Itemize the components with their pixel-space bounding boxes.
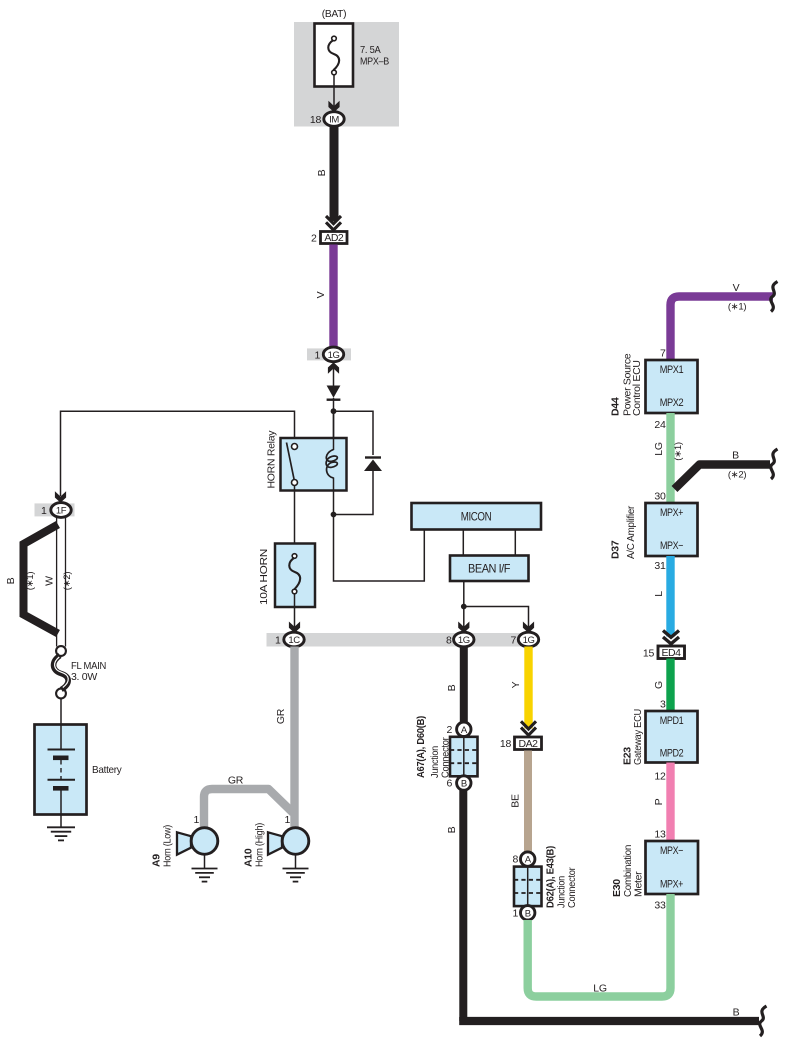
svg-text:AD2: AD2 (324, 232, 344, 244)
connector IM (324, 112, 344, 127)
wire coil to MICON (334, 515, 425, 582)
svg-text:(∗1): (∗1) (25, 572, 36, 591)
wire L D37 to ED4 (666, 556, 674, 637)
wire GR main 1C to horn A10 (290, 647, 298, 829)
wire LG loop D62 to E30 (528, 894, 671, 997)
svg-text:W: W (44, 576, 56, 586)
svg-text:MICON: MICON (461, 510, 492, 524)
wire B bottom to right edge (463, 1017, 759, 1021)
battery (35, 725, 87, 815)
svg-text:V: V (315, 291, 327, 298)
connector 1F (51, 503, 71, 518)
svg-text:D44: D44 (610, 397, 622, 416)
svg-text:10A HORN: 10A HORN (258, 549, 270, 605)
svg-text:A67(A), D60(B): A67(A), D60(B) (415, 716, 427, 778)
wire top junction to diode D2 (334, 411, 374, 455)
wire Y 7-1G to DA2 (524, 647, 532, 729)
relay HORN Relay box (281, 438, 347, 491)
fuse block background (Main Body ECU shading) (294, 22, 399, 127)
connector 1F band (35, 503, 75, 516)
wire FL MAIN to battery (60, 699, 62, 725)
svg-text:Horn (Low): Horn (Low) (162, 825, 174, 867)
svg-text:D37: D37 (610, 540, 622, 559)
wire BEAN to junction node (463, 581, 465, 627)
ground below horn A9 (204, 854, 206, 868)
junction connector A terminal (A67) (457, 722, 471, 736)
node junction bottom (331, 512, 337, 518)
arrow into 1F (55, 491, 66, 503)
svg-text:B: B (732, 450, 739, 462)
wire relay feed horizontal (61, 411, 295, 496)
fusible link FL MAIN 3.0W (56, 646, 66, 656)
diode D2 (pointing up) (365, 456, 381, 458)
connector 1C (284, 632, 304, 647)
svg-text:1G: 1G (523, 635, 535, 646)
svg-text:2: 2 (446, 724, 452, 736)
horn A10 symbol (268, 832, 282, 854)
svg-text:ED4: ED4 (662, 647, 682, 659)
arrow into 8 1G (458, 622, 469, 634)
svg-text:13: 13 (654, 829, 666, 841)
connector 1G (323, 347, 343, 362)
fuse F1 symbol (332, 36, 337, 41)
svg-text:MPX+: MPX+ (660, 507, 683, 519)
node BEAN branch (461, 604, 467, 610)
svg-text:(∗2): (∗2) (728, 470, 747, 481)
wire branch to 7 1G (464, 607, 529, 628)
wire LG D44 to D37 (666, 413, 674, 503)
wire MICON to BEAN I/F right (514, 529, 516, 556)
svg-text:GR: GR (275, 708, 287, 724)
svg-text:1: 1 (193, 814, 199, 826)
wire G ED4 to E23 (666, 659, 674, 712)
svg-text:1G: 1G (328, 350, 340, 361)
svg-text:LG: LG (593, 983, 607, 995)
svg-text:B: B (446, 684, 458, 691)
node junction top (331, 408, 337, 414)
svg-text:6: 6 (446, 778, 452, 790)
arrow into IM (328, 101, 339, 113)
diode D1 (pointing down) (327, 386, 341, 398)
svg-text:2: 2 (311, 233, 317, 245)
svg-text:12: 12 (654, 771, 666, 783)
wire B 8-1G to junction connector (460, 647, 468, 723)
horn A9 symbol (177, 832, 191, 854)
wire terminator squiggle (V) (771, 282, 778, 312)
svg-text:BE: BE (510, 794, 522, 808)
bus bar (connector strip) (267, 633, 538, 647)
junction connector B terminal (D62) (521, 906, 535, 920)
wire B (thick) IM to AD2 (330, 126, 339, 221)
wire relay switch to fuse (294, 486, 296, 557)
svg-text:24: 24 (654, 419, 666, 431)
connector 1G (pin 8) (454, 632, 474, 647)
svg-text:31: 31 (654, 560, 666, 572)
svg-text:GR: GR (228, 775, 244, 787)
wire BE DA2 to junction connector (524, 751, 532, 853)
svg-text:Y: Y (510, 681, 522, 688)
svg-text:1: 1 (41, 505, 47, 517)
wire diode to junction (333, 398, 335, 438)
wire 1G to diode (333, 369, 335, 386)
wire GR branch to horn A9 (204, 789, 293, 828)
svg-text:B: B (525, 908, 531, 919)
svg-text:IM: IM (329, 115, 339, 126)
svg-text:MPX−: MPX− (660, 540, 683, 552)
wire MICON to BEAN I/F left (462, 529, 464, 556)
svg-text:MPX+: MPX+ (660, 879, 683, 891)
svg-text:V: V (733, 282, 740, 294)
svg-text:18: 18 (500, 738, 512, 750)
wire B junction connector down (459, 790, 467, 1021)
wire B (thick bypass) 1F to FL MAIN (24, 525, 59, 634)
svg-text:8: 8 (512, 854, 518, 866)
ECU D37 box (646, 503, 698, 556)
svg-text:Connector: Connector (566, 867, 578, 908)
svg-text:(∗1): (∗1) (673, 442, 684, 461)
double chevron into ED4 (663, 631, 679, 638)
double chevron into AD2 (326, 216, 341, 224)
svg-text:B: B (733, 1007, 740, 1019)
svg-text:Connector: Connector (440, 737, 452, 778)
wire P E23 to E30 (666, 763, 674, 842)
svg-text:B: B (446, 826, 458, 833)
ground below horn A10 (295, 854, 297, 868)
svg-text:DA2: DA2 (519, 738, 539, 750)
svg-text:3: 3 (660, 699, 666, 711)
ECU D44 box (646, 360, 698, 413)
connector AD2 (321, 232, 348, 244)
fuse F1 7.5A MPX-B box (315, 24, 354, 87)
svg-text:1: 1 (275, 635, 281, 647)
svg-text:7. 5A: 7. 5A (360, 44, 381, 56)
MICON box (412, 503, 542, 530)
svg-text:(∗1): (∗1) (728, 302, 747, 313)
wire diode D2 to bottom junction (334, 471, 374, 515)
fuse 10A symbol (292, 554, 297, 559)
wire V (violet) AD2 to 1G (329, 245, 337, 349)
svg-text:Meter: Meter (633, 871, 645, 897)
connector 1G (pin 7) (518, 632, 538, 647)
svg-text:MPX–B: MPX–B (360, 56, 389, 68)
svg-text:B: B (5, 577, 17, 584)
double chevron into DA2 (521, 721, 536, 729)
junction connector D62(A),E43(B) box (514, 867, 542, 907)
svg-text:8: 8 (446, 635, 452, 647)
svg-text:MPX2: MPX2 (660, 397, 684, 409)
junction connector B terminal (A67) (457, 776, 471, 790)
svg-text:MPX1: MPX1 (660, 364, 684, 376)
connector 1G band (307, 348, 351, 360)
svg-text:A/C Amplifier: A/C Amplifier (625, 505, 637, 559)
svg-text:1: 1 (284, 814, 290, 826)
arrow into 7 1G (523, 622, 534, 634)
svg-text:Control ECU: Control ECU (631, 360, 643, 416)
svg-text:HORN Relay: HORN Relay (266, 430, 278, 489)
relay coil (333, 411, 335, 450)
svg-text:BEAN I/F: BEAN I/F (468, 562, 510, 576)
svg-text:Battery: Battery (92, 764, 122, 776)
junction connector A67(A),D60(B) box (450, 737, 478, 777)
svg-text:1G: 1G (458, 635, 470, 646)
svg-text:1: 1 (512, 907, 518, 919)
svg-text:1: 1 (314, 349, 320, 361)
ECU E30 box (646, 841, 699, 894)
svg-text:(∗2): (∗2) (62, 572, 73, 591)
svg-text:33: 33 (654, 900, 666, 912)
svg-text:(BAT): (BAT) (322, 8, 347, 20)
svg-text:B: B (316, 169, 328, 176)
arrow up into 1G (328, 362, 339, 373)
connector ED4 (658, 646, 685, 659)
svg-text:LG: LG (653, 442, 665, 456)
junction connector A terminal (D62) (521, 852, 535, 866)
relay switch blade (287, 443, 295, 480)
svg-text:1F: 1F (56, 506, 67, 517)
svg-text:7: 7 (510, 635, 516, 647)
svg-text:Gateway ECU: Gateway ECU (632, 709, 644, 765)
svg-text:L: L (653, 591, 665, 597)
svg-text:MPX−: MPX− (660, 845, 683, 857)
wire V top right (671, 297, 774, 361)
wire W (white, outlined) 1F to FL MAIN (56, 518, 58, 647)
svg-text:MPD1: MPD1 (660, 715, 684, 727)
svg-text:P: P (653, 798, 665, 805)
connector DA2 (515, 737, 542, 750)
wire terminator squiggle (B bottom) (760, 1006, 767, 1036)
svg-text:7: 7 (660, 348, 666, 360)
svg-text:G: G (653, 681, 665, 689)
svg-text:15: 15 (643, 648, 655, 660)
svg-text:B: B (461, 779, 467, 790)
relay switch contacts (292, 444, 298, 450)
svg-text:MPD2: MPD2 (660, 748, 684, 760)
wire B branch right (675, 465, 771, 490)
wire fuse to IM (333, 75, 335, 106)
wire fuse to 1C (294, 594, 296, 627)
fuse 10A HORN box (275, 544, 315, 608)
svg-text:18: 18 (310, 114, 322, 126)
svg-text:Horn (High): Horn (High) (254, 823, 266, 867)
ECU E23 box (646, 711, 698, 763)
BEAN I/F box (450, 556, 529, 582)
svg-text:30: 30 (654, 491, 666, 503)
svg-text:1C: 1C (288, 635, 300, 646)
arrow into 1C (289, 622, 300, 634)
wire terminator squiggle (B) (771, 449, 778, 479)
ground below battery (60, 815, 62, 828)
svg-text:3. 0W: 3. 0W (71, 671, 97, 683)
